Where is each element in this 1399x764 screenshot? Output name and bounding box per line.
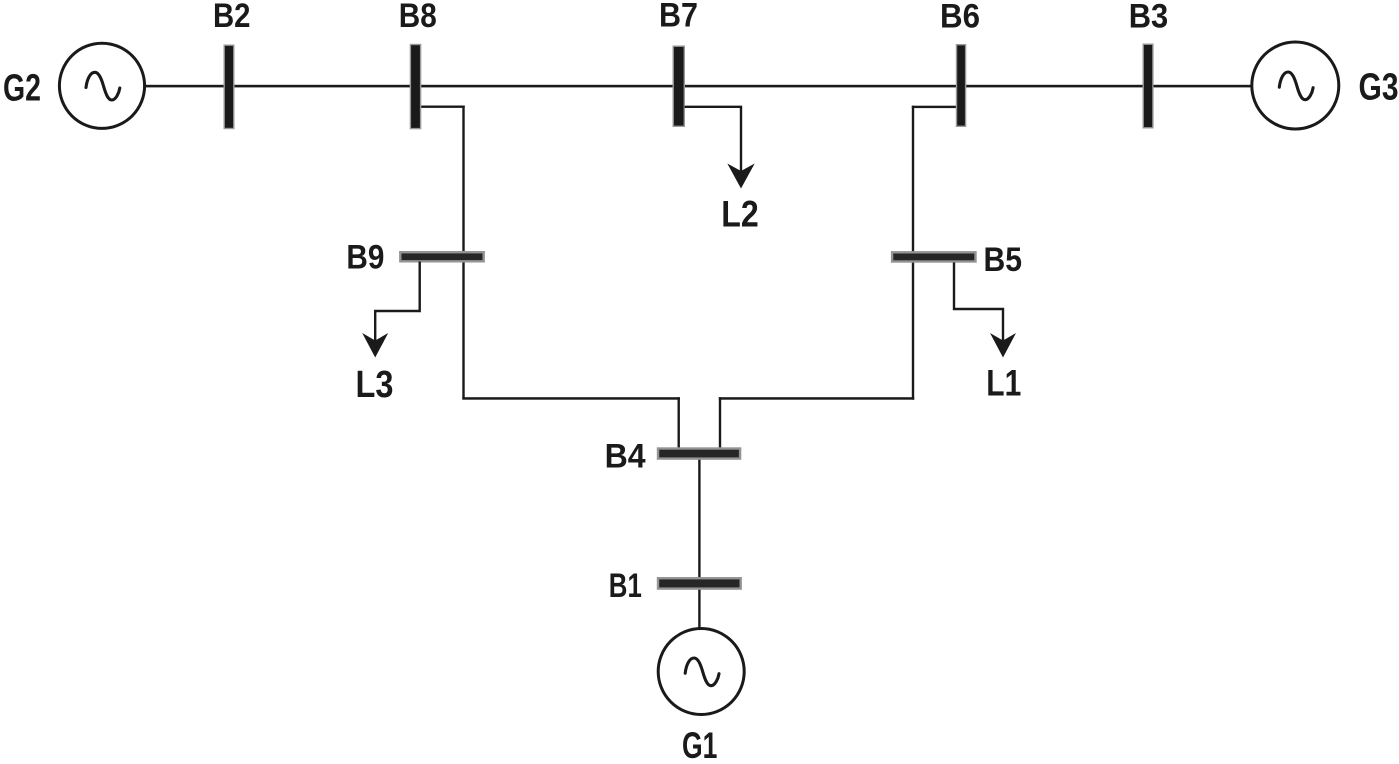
wire: B4 to B1 vertical — [698, 459, 700, 578]
bus B4 (horizontal bar) — [658, 449, 740, 459]
wire: B1 to G1 vertical — [698, 588, 700, 630]
load L3 arrowhead — [362, 333, 388, 358]
svg-text:B2: B2 — [213, 0, 251, 35]
wire: vertical into B4 right — [719, 397, 721, 448]
svg-text:L1: L1 — [986, 362, 1021, 403]
wire: horizontal run y398 right branch — [719, 397, 914, 400]
load L2 feeder from B7 — [685, 107, 742, 172]
bus B3 (vertical bar) — [1143, 44, 1153, 128]
svg-text:G3: G3 — [1359, 67, 1399, 109]
svg-text:B6: B6 — [940, 0, 980, 35]
bus B8 (vertical bar) — [410, 45, 420, 129]
wire: stub from B8 right side — [421, 106, 465, 108]
generator G3 circle — [1252, 42, 1339, 129]
svg-text:B5: B5 — [984, 241, 1023, 279]
wire: vertical into B4 left — [678, 397, 680, 448]
wire: vertical drop B6 through B5 to y398 — [912, 106, 914, 400]
wire: vertical drop B8 through B9 to y398 — [462, 106, 464, 400]
svg-text:B7: B7 — [659, 0, 698, 35]
svg-text:B3: B3 — [1129, 0, 1169, 35]
bus B1 (horizontal bar) — [658, 578, 741, 588]
generator G2 sine symbol — [86, 72, 120, 100]
generator G3 sine symbol — [1279, 72, 1313, 100]
generator G1 circle — [658, 629, 744, 715]
bus B9 (horizontal bar) — [400, 252, 483, 261]
generator G1 sine symbol — [685, 658, 719, 686]
svg-text:B4: B4 — [605, 438, 646, 476]
svg-text:G2: G2 — [3, 68, 41, 110]
bus B2 (vertical bar) — [224, 45, 234, 128]
wire: stub from B6 left side — [912, 106, 956, 108]
load L3 feeder from B9 — [375, 262, 420, 342]
bus B6 (vertical bar) — [957, 45, 966, 127]
load L1 feeder from B5 — [954, 263, 1003, 342]
svg-text:B9: B9 — [346, 239, 384, 277]
wire: horizontal run y398 left branch — [462, 397, 680, 400]
load L1 arrowhead — [990, 333, 1016, 358]
svg-text:L2: L2 — [721, 194, 759, 235]
load L2 arrowhead — [727, 164, 754, 189]
svg-text:B8: B8 — [399, 0, 437, 35]
svg-text:B1: B1 — [609, 567, 642, 605]
bus B7 (vertical bar) — [673, 46, 684, 126]
generator G2 circle — [59, 43, 144, 128]
wire: main horizontal tie G2-B2-B8-B7-B6-B3-G3 — [145, 85, 1253, 88]
svg-text:G1: G1 — [682, 725, 717, 759]
bus B5 (horizontal bar) — [892, 252, 975, 261]
svg-text:L3: L3 — [356, 364, 394, 406]
